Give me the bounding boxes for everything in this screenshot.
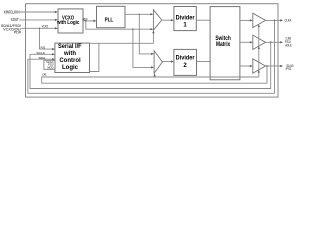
Divider 2 block	[174, 49, 197, 75]
chip outer border	[26, 4, 279, 97]
svg-text:/FS1: /FS1	[286, 67, 292, 71]
svg-text:Serial I/F: Serial I/F	[58, 44, 82, 50]
svg-text:Divider: Divider	[176, 16, 196, 22]
wire pin3 to VCXO	[21, 27, 56, 29]
svg-text:PLL: PLL	[105, 17, 114, 23]
Switch Matrix block	[210, 7, 240, 80]
Serial I/F with Control Logic block	[55, 43, 90, 72]
svg-text:Matrix: Matrix	[216, 42, 231, 48]
PLL block	[97, 6, 126, 27]
svg-text:Logic: Logic	[62, 65, 79, 71]
arrow buffer C enable	[258, 70, 260, 73]
node FS0 tap	[39, 28, 41, 30]
wire PLL out to mux1	[125, 13, 152, 15]
wire CLKB out	[266, 41, 282, 43]
Divider 1 block	[174, 7, 196, 31]
wire Divider1 to Switch Matrix	[196, 19, 210, 21]
node PLL out branch	[139, 14, 141, 16]
buffer C	[253, 59, 266, 73]
mode pin box	[44, 60, 55, 69]
svg-text:Divider: Divider	[176, 55, 196, 61]
wire bypass to mux2 bottom input	[133, 29, 153, 67]
wire SW to buffer A	[240, 19, 251, 21]
wire Divider2 to Switch Matrix	[197, 61, 211, 63]
wire feedback pin3 to OE bus	[42, 66, 267, 83]
node CLKB feedback	[270, 41, 272, 43]
wire control to mux1 select	[90, 32, 154, 44]
wire SW to buffer C	[240, 65, 251, 67]
wire CLKA out	[266, 19, 282, 21]
node bypass branch	[132, 28, 134, 30]
wire SW to buffer B	[240, 41, 251, 43]
wire mux2 to Divider 2	[162, 61, 172, 63]
mux M2	[154, 51, 162, 74]
wire PLL to mux2 top input	[139, 14, 152, 54]
svg-text:OE: OE	[42, 72, 46, 76]
wire mux1 to Divider 1	[162, 19, 173, 21]
node pin3 feedback	[266, 65, 268, 67]
buffer B	[253, 35, 266, 49]
svg-text:PD#: PD#	[14, 31, 22, 35]
VCXO with Logic block	[58, 9, 83, 33]
wire FS0 down to serial	[40, 28, 54, 49]
node CLKA feedback	[274, 20, 276, 22]
svg-text:XIN/CLKIN: XIN/CLKIN	[4, 9, 20, 14]
svg-text:XOUT: XOUT	[11, 17, 19, 22]
svg-text:MOD: MOD	[48, 65, 54, 69]
svg-text:FS0: FS0	[41, 46, 46, 50]
wire REF bypass	[86, 21, 152, 29]
wire serial to control join	[90, 43, 99, 71]
arrow buffer A enable	[258, 24, 260, 27]
svg-text:SDA: SDA	[39, 56, 46, 60]
wire XIN	[20, 11, 57, 13]
svg-text:with: with	[63, 51, 76, 57]
svg-text:VCXO: VCXO	[42, 24, 49, 28]
svg-text:CLKA: CLKA	[285, 18, 292, 22]
node bypass tap	[85, 20, 87, 22]
buffer A	[253, 13, 266, 27]
mux M1	[153, 10, 161, 30]
svg-text:Control: Control	[59, 58, 81, 64]
wire VCXO to PLL	[83, 20, 95, 22]
wire buffer enable riser	[258, 26, 260, 78]
svg-text:A0LE: A0LE	[285, 43, 292, 47]
svg-text:with Logic: with Logic	[56, 20, 79, 26]
wire XOUT	[19, 19, 56, 21]
arrow buffer B enable	[258, 46, 260, 49]
wire pin S1/A0 out	[266, 65, 282, 67]
wire mux2 select	[154, 75, 156, 77]
wire feedback CLKA to SDA	[28, 20, 275, 93]
wire feedback CLKB to SCLK	[30, 42, 271, 88]
svg-text:SCLK: SCLK	[36, 51, 45, 55]
